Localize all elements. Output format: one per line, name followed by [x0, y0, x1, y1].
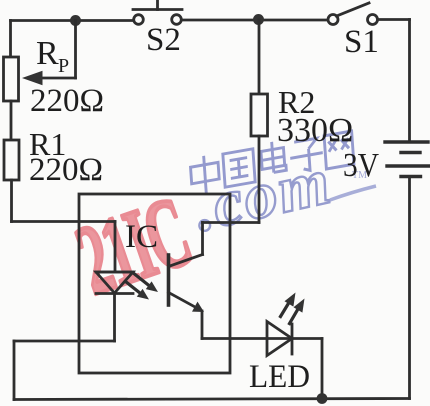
watermark char 国	[223, 149, 255, 187]
wire cathode return left vertical	[13, 341, 16, 400]
watermark 21IC red text	[64, 177, 201, 316]
wire optocoupler cathode horizontal	[14, 340, 115, 343]
node C junction dot bottom	[317, 393, 328, 404]
IC optocoupler box U1	[79, 194, 230, 373]
wire RP wiper horizontal with arrow	[22, 71, 76, 85]
svg-text:330Ω: 330Ω	[277, 112, 353, 149]
resistor R1 body	[4, 140, 19, 180]
svg-text:P: P	[58, 55, 69, 77]
wire LED cathode down	[321, 339, 324, 399]
value label R2 330 ohm	[277, 112, 353, 149]
node B junction dot top middle	[253, 14, 264, 25]
svg-text:S2: S2	[146, 22, 181, 58]
wire RP wiper vertical	[74, 21, 77, 79]
battery B1 3V plates	[385, 142, 429, 177]
value label battery 3V	[343, 147, 379, 184]
wire node B down to R2	[258, 20, 261, 94]
wire emitter to LED horizontal	[202, 337, 322, 340]
svg-text:IC: IC	[125, 219, 158, 255]
phototransistor collector diagonal	[169, 255, 203, 267]
watermark char 中	[190, 153, 220, 196]
wire RP to R1	[10, 101, 13, 140]
node A junction dot top left	[70, 15, 81, 26]
wire R1 down to corner	[10, 180, 13, 222]
wire to optocoupler anode horizontal	[12, 220, 116, 223]
wire left vertical top	[9, 21, 12, 58]
label R2	[278, 84, 315, 120]
svg-text:R: R	[36, 35, 59, 72]
svg-text:220Ω: 220Ω	[29, 152, 103, 188]
wire emitter vertical	[201, 311, 204, 339]
svg-text:220Ω: 220Ω	[30, 83, 104, 119]
optocoupler light arrows	[126, 274, 159, 300]
wire bottom	[14, 399, 410, 400]
label RP	[36, 35, 69, 77]
svg-text:LED: LED	[249, 359, 310, 395]
phototransistor emitter diagonal with arrow	[169, 293, 205, 313]
wire top left segment	[11, 19, 134, 22]
switch S2 push button	[133, 0, 182, 24]
optocoupler internal LED diode	[96, 272, 133, 294]
label S2	[146, 22, 181, 58]
wire right side down to battery	[408, 20, 411, 143]
phototransistor Q1 base bar	[167, 255, 171, 305]
watermark char 网	[324, 131, 354, 169]
svg-text:3V: 3V	[343, 147, 379, 184]
wire optocoupler anode vertical	[114, 222, 117, 272]
watermark swoosh underline	[330, 186, 376, 200]
watermark char 子	[289, 137, 324, 173]
label IC	[125, 219, 158, 255]
value label R1 220 ohm	[29, 152, 103, 188]
LED emission arrows	[281, 293, 305, 324]
wire collector vertical	[201, 223, 204, 255]
wire R2 to collector horizontal	[203, 221, 260, 224]
value label RP 220 ohm	[30, 83, 104, 119]
label S1	[344, 24, 379, 60]
svg-text:S1: S1	[344, 24, 379, 60]
wire optocoupler cathode vertical	[113, 294, 116, 342]
label R1	[29, 126, 66, 162]
wire battery to bottom right corner	[408, 177, 411, 399]
watermark char 电	[260, 140, 286, 175]
label LED	[249, 359, 310, 395]
watermark TM mark	[352, 170, 367, 181]
wire top right segment S1 to corner	[378, 18, 410, 21]
wire R2 down	[258, 136, 261, 223]
wire top middle segment S2 to S1	[182, 19, 329, 22]
LED D1 symbol	[267, 322, 292, 356]
switch S1	[328, 3, 378, 25]
potentiometer RP body	[4, 57, 19, 101]
resistor R2 body	[251, 94, 268, 136]
watermark .com blue script	[187, 144, 338, 245]
